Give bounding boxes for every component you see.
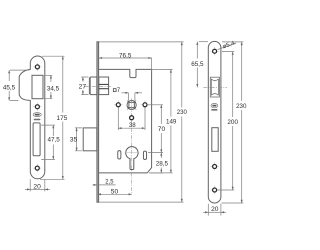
- diameter 5.4 label: [218, 43, 237, 50]
- svg-text:76,5: 76,5: [119, 53, 132, 60]
- svg-text:27: 27: [79, 83, 87, 90]
- lock body vertical centerline: [131, 98, 133, 194]
- svg-text:35: 35: [70, 136, 78, 143]
- svg-text:28,5: 28,5: [156, 160, 169, 167]
- dimension 47.5 deadbolt slot height: [41, 125, 55, 159]
- follower left screw hole: [114, 101, 123, 110]
- strike plate latch cutout: [32, 75, 43, 98]
- strike plate deadbolt slot: [33, 123, 40, 156]
- dimension 149 case height: [149, 69, 173, 172]
- svg-text:20: 20: [33, 183, 41, 190]
- latch bolt head: [89, 77, 96, 95]
- euro cylinder profile: [126, 147, 138, 170]
- strike plate VISA text: [34, 119, 41, 121]
- left oval slot: [118, 151, 121, 159]
- dimension 200 screw hole spacing: [217, 52, 234, 190]
- dimension 20 strike plate width: [25, 179, 50, 191]
- svg-text:65,5: 65,5: [191, 61, 204, 68]
- dimension 50 backset: [98, 193, 132, 195]
- faceplate FAB logo oval: [211, 103, 218, 107]
- faceplate front view outline: [208, 41, 221, 203]
- svg-text:38: 38: [129, 122, 136, 129]
- svg-text:47,5: 47,5: [47, 136, 60, 143]
- svg-text:45,5: 45,5: [3, 85, 16, 92]
- latch centerline: [85, 86, 113, 88]
- dimension 45.5 strike lip height: [9, 70, 29, 101]
- lock body case outline: [99, 69, 152, 172]
- faceplate deadbolt opening: [212, 128, 218, 152]
- faceplate latch centerline: [203, 86, 227, 88]
- right oval slot: [143, 151, 146, 159]
- strike plate bottom screw hole: [33, 164, 42, 173]
- svg-text:200: 200: [227, 119, 238, 126]
- dimension 175 strike plate height: [40, 56, 65, 179]
- lock body faceplate strip: [97, 42, 99, 202]
- svg-text:50: 50: [111, 188, 119, 195]
- latch bolt face in opening: [211, 79, 218, 96]
- svg-text:149: 149: [166, 118, 177, 125]
- svg-text:34,5: 34,5: [47, 86, 60, 93]
- square 7 label and dimension: [113, 89, 116, 92]
- faceplate bottom screw hole: [210, 186, 219, 195]
- dimension 230 faceplate height (right view): [222, 42, 244, 203]
- svg-text:2,5: 2,5: [105, 178, 113, 185]
- dimension 2.5 faceplate thickness: [93, 184, 116, 186]
- dimension 28.5 cylinder to case bottom: [148, 153, 163, 173]
- svg-text:7: 7: [117, 88, 121, 94]
- strike plate outline: [19, 56, 45, 179]
- dimension 76.5 case depth: [99, 58, 152, 72]
- svg-text:175: 175: [57, 115, 68, 122]
- dimension 230 faceplate height (middle view): [99, 42, 184, 202]
- faceplate VISA text: [211, 109, 217, 111]
- svg-text:20: 20: [211, 206, 219, 213]
- follower right screw hole: [141, 101, 150, 110]
- ring below follower: [130, 116, 134, 120]
- dimension 35 deadbolt height: [75, 128, 82, 151]
- strike plate middle screw hole: [33, 102, 42, 111]
- dimension 65.5 top to latch center: [197, 42, 208, 88]
- faceplate top screw hole: [210, 47, 219, 56]
- dimension 38 screw hole spacing: [118, 108, 145, 131]
- dimension 27 latch height: [81, 77, 88, 95]
- deadbolt thrown: [83, 128, 97, 151]
- latch bolt tail: [99, 77, 109, 95]
- strike plate FAB logo oval: [33, 113, 41, 117]
- svg-text:230: 230: [236, 103, 247, 110]
- dimension 70 follower to cylinder: [148, 105, 163, 153]
- strike plate top screw hole: [33, 63, 42, 72]
- svg-text:230: 230: [177, 109, 187, 116]
- svg-text:70: 70: [158, 126, 166, 133]
- follower (square spindle hub): [127, 100, 136, 109]
- dimension 34.5 latch cutout height: [44, 75, 52, 98]
- faceplate latch opening: [210, 77, 219, 97]
- dimension 20 faceplate width: [203, 204, 226, 216]
- faceplate middle screw hole: [210, 162, 219, 171]
